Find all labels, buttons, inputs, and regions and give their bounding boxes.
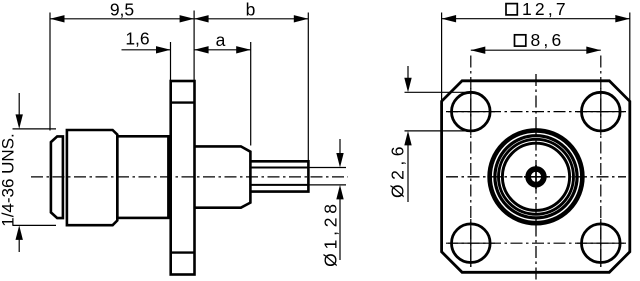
front view: thread ring 1 xyxy=(495,136,577,218)
front view: thread ring 2 xyxy=(499,139,574,214)
side view: thread face cap xyxy=(51,136,63,218)
front view: hole centerline column left xyxy=(470,56,472,271)
thread dimension line with arrows xyxy=(18,93,20,115)
side view: solder bucket inner bore lines xyxy=(250,167,308,169)
side view: flange chamfer edge bottom xyxy=(171,251,195,253)
front view: mounting hole top-left xyxy=(452,92,491,131)
side view: connector body section xyxy=(117,136,168,218)
front view: mounting hole bottom-right xyxy=(582,224,621,263)
extension line 1,6 left (flange left face) xyxy=(170,42,172,81)
svg-text:8,6: 8,6 xyxy=(531,30,565,50)
front view: flange octagon outline xyxy=(442,81,630,272)
thread dimension extension lines xyxy=(13,128,57,130)
side view: rear cylinder xyxy=(195,146,251,207)
svg-text:9,5: 9,5 xyxy=(110,0,134,20)
front view: mounting hole top-right xyxy=(582,92,621,131)
svg-text:1,6: 1,6 xyxy=(125,29,149,49)
svg-text:1/4-36 UNS.: 1/4-36 UNS. xyxy=(0,133,18,227)
dimension line b xyxy=(194,18,308,20)
front view: center contact ring xyxy=(528,169,544,185)
front view: hole centerline row top xyxy=(446,111,626,113)
front view: horizontal centerline xyxy=(446,176,626,178)
side view: flange plate xyxy=(171,81,195,275)
pin diameter dimension line xyxy=(339,139,341,154)
svg-text:b: b xyxy=(246,0,256,20)
dimension label square 12,7 xyxy=(506,4,517,15)
front view: connector outer ring xyxy=(490,130,583,223)
front view: thread ring 3 xyxy=(502,143,569,210)
dimension line 12,7 xyxy=(442,18,630,20)
extension line b right (pin end) xyxy=(307,13,309,161)
extension line 12,7 right xyxy=(629,13,631,101)
extension line center (flange right face) xyxy=(193,11,195,81)
svg-text:a: a xyxy=(216,30,226,50)
side view: centerline xyxy=(31,176,348,178)
extension line a right (cylinder end) xyxy=(250,42,252,146)
front view: center cross xyxy=(524,176,548,178)
dimension label square 8,6 xyxy=(515,35,526,46)
dimension line 1,6 xyxy=(122,49,171,51)
hole diameter dimension line xyxy=(407,66,409,79)
extension line 9,5 left xyxy=(49,13,51,131)
front view: mounting hole bottom-left xyxy=(452,224,491,263)
side view: threaded barrel 1/4-36 UNS xyxy=(67,130,117,225)
dimension line a xyxy=(194,49,251,51)
extension line 12,7 left xyxy=(441,13,443,101)
svg-text:Ø1,28: Ø1,28 xyxy=(321,200,341,267)
pin diameter extension lines xyxy=(308,167,346,169)
front view: hole centerline row bottom xyxy=(446,242,626,244)
front view: vertical centerline xyxy=(535,74,537,281)
dimension line 8,6 xyxy=(471,49,601,51)
side view: flange chamfer edge top xyxy=(171,101,195,103)
svg-text:12,7: 12,7 xyxy=(522,0,569,19)
svg-text:Ø2,6: Ø2,6 xyxy=(388,142,408,198)
side view: solder bucket outer tube xyxy=(250,161,308,191)
hole diameter extension lines xyxy=(405,91,471,93)
dimension line 9,5 xyxy=(50,18,194,20)
front view: hole centerline column right xyxy=(600,56,602,271)
